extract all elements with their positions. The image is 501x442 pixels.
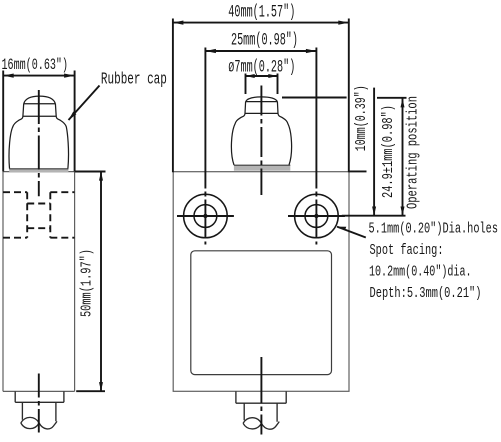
right view: rubber cap base plate — [234, 165, 290, 171]
dimension 24.9mm: dimension line with arrow — [372, 88, 376, 216]
label: 10mm(0.39&#8243;) rotated — [354, 85, 370, 151]
svg-text:10.2mm(0.40″)dia.: 10.2mm(0.40″)dia. — [369, 265, 472, 281]
dimension 24.9mm: top extension tick — [377, 97, 407, 99]
left view: rubber cap base plate — [9, 169, 68, 172]
dimension 16mm: extension lines — [3, 71, 74, 172]
left view: switch body outline — [3, 172, 75, 392]
label: Spot facing: — [370, 243, 444, 259]
svg-text:10mm(0.39″): 10mm(0.39″) — [354, 85, 370, 151]
dimension 40mm: dimension line with arrows — [173, 21, 349, 25]
leader arrow to rubber cap — [69, 86, 100, 121]
svg-text:5.1mm(0.20″)Dia.holes: 5.1mm(0.20″)Dia.holes — [369, 222, 499, 238]
svg-text:40mm(1.57″): 40mm(1.57″) — [228, 2, 295, 22]
svg-text:Spot facing:: Spot facing: — [370, 243, 444, 259]
dimension dia7mm: dimension line with arrows — [246, 74, 278, 78]
label: 40mm(1.57&#8243;) — [228, 2, 295, 22]
label: Depth:5.3mm(0.21&#8243;) — [370, 286, 482, 302]
svg-text:Operating position: Operating position — [406, 96, 422, 209]
right view: cover plate (rounded rectangle) — [191, 251, 332, 375]
left view: lower centerline — [38, 374, 40, 433]
right view: connector centerline — [260, 357, 262, 435]
label: Rubber cap — [101, 69, 167, 88]
leader arrow to mounting hole — [337, 227, 366, 238]
dimension 10mm: body-top extension tick — [349, 170, 367, 172]
label: 25mm(0.98&#8243;) — [231, 31, 298, 51]
left view: upper centerline — [38, 88, 40, 196]
dimension 16mm: dimension line with arrows — [3, 74, 74, 78]
right view: cap centerline — [260, 85, 262, 196]
svg-text:24.9±1mm(0.98″): 24.9±1mm(0.98″) — [381, 105, 397, 198]
left view: bottom cable connector — [15, 391, 64, 429]
dimension 24.9mm: bottom extension tick at hole center — [342, 215, 406, 217]
left view: hidden plunger (dashed lines) — [3, 192, 75, 238]
svg-text:Depth:5.3mm(0.21″): Depth:5.3mm(0.21″) — [370, 286, 482, 302]
svg-text:50mm(1.97″): 50mm(1.97″) — [80, 249, 96, 317]
dimension 10mm: cap-top extension line — [282, 97, 347, 99]
dimension operating position: line with arrows — [401, 98, 405, 216]
svg-text:ø7mm(0.28″): ø7mm(0.28″) — [228, 58, 295, 78]
right view: right mounting hole — [288, 194, 345, 238]
label: 50mm(1.97&#8243;) rotated — [80, 249, 96, 317]
dimension 25mm: hole centerlines (extension) — [205, 48, 316, 245]
label: 10.2mm(0.40&#8243;)dia. — [369, 265, 472, 281]
dimension 50mm: dimension line with arrows — [99, 171, 103, 391]
dimension 40mm: extension lines — [173, 19, 349, 173]
dimension 25mm: dimension line with arrows — [205, 49, 316, 53]
right view: bottom cable connector — [236, 391, 286, 429]
right view: left mounting hole — [177, 194, 234, 238]
dimension 50mm: extension ticks — [75, 172, 106, 392]
svg-text:25mm(0.98″): 25mm(0.98″) — [231, 31, 298, 51]
label: 5.1mm(0.20&#8243;)Dia.holes — [369, 222, 499, 238]
label: dia7mm(0.28&#8243;) — [228, 58, 295, 78]
left view: rubber cap outline — [9, 96, 69, 169]
label: 24.9&#177;1mm(0.98&#8243;) rotated — [381, 105, 397, 198]
svg-text:Rubber cap: Rubber cap — [101, 69, 167, 88]
dimension dia7mm: extension lines — [246, 74, 278, 95]
label: Operating position rotated — [406, 96, 422, 209]
right view: switch body outline — [173, 172, 349, 392]
label: 16mm(0.63&#8243;) — [2, 56, 69, 74]
right view: rubber cap outline — [231, 97, 291, 165]
svg-text:16mm(0.63″): 16mm(0.63″) — [2, 56, 69, 74]
